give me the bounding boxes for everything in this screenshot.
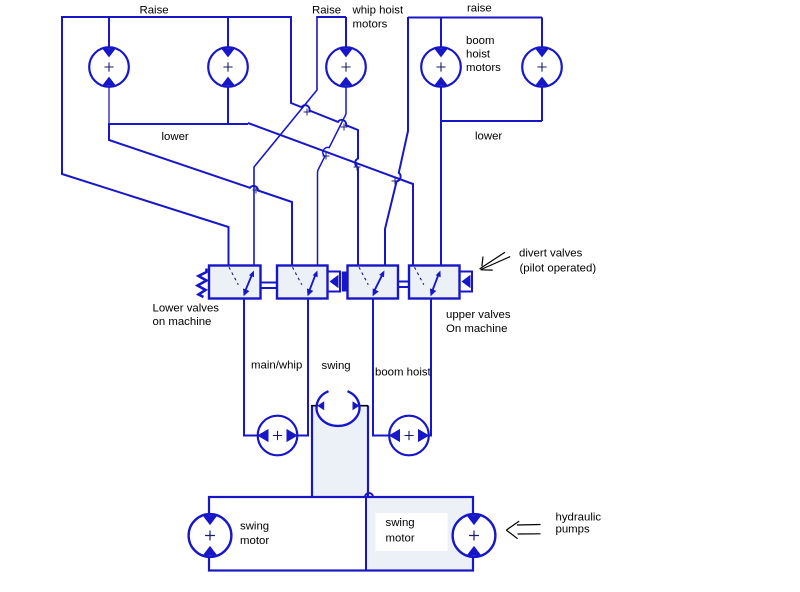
motor M5 boom hoist — [522, 47, 562, 87]
wire left line rail1 to valve V1 left port — [62, 16, 229, 266]
svg-text:boom: boom — [466, 35, 495, 47]
motor M3 whip hoist — [326, 47, 366, 87]
svg-text:hydraulic: hydraulic — [556, 512, 602, 524]
valve V4 body — [409, 266, 460, 299]
wire lower rail 1 — [109, 123, 248, 125]
svg-text:Raise: Raise — [312, 5, 341, 17]
valve V2 body — [277, 266, 328, 299]
motor M10 swing motor right / pump — [453, 514, 496, 557]
crossing tick mark node (307,112) — [304, 109, 311, 116]
svg-text:motor: motor — [386, 533, 415, 545]
pilot box on valve V2 right — [328, 272, 341, 292]
wire raise rail 1 — [62, 16, 291, 18]
valve V1 body — [209, 266, 261, 299]
svg-text:Raise: Raise — [140, 5, 169, 17]
svg-text:raise: raise — [467, 3, 492, 15]
wire swing duct left — [311, 406, 313, 498]
svg-text:Lower valves: Lower valves — [153, 303, 220, 315]
black stub swing motor left — [311, 405, 318, 407]
wire valve V3 bottom to motor M8 left — [373, 299, 390, 436]
svg-text:motors: motors — [353, 19, 388, 31]
svg-text:main/whip: main/whip — [251, 360, 302, 372]
spring on valve V1 left — [198, 269, 207, 298]
solenoid block on valve V3 left — [342, 272, 348, 292]
wire motor M2 bottom drop — [227, 87, 229, 124]
hop arc at duct right over box top node (369,497) — [365, 493, 373, 497]
svg-text:divert valves: divert valves — [519, 248, 583, 260]
pump box right compartment fill — [366, 497, 473, 571]
crossing tick mark node (344,127) — [341, 124, 348, 131]
wire boom lower rail — [441, 120, 542, 122]
wire motor M5 top drop — [541, 18, 543, 49]
svg-text:whip hoist: whip hoist — [352, 5, 404, 17]
valve V3 body — [348, 266, 399, 299]
svg-text:swing: swing — [240, 521, 269, 533]
motor M6 main/whip — [257, 416, 298, 456]
svg-text:lower: lower — [475, 131, 502, 143]
svg-text:boom hoist: boom hoist — [375, 367, 432, 379]
svg-text:swing: swing — [322, 360, 351, 372]
wire motor M2 top drop — [227, 17, 229, 48]
valve V1-V2 connector links — [261, 283, 278, 289]
wire motor M1 top drop — [108, 17, 110, 48]
pump box divider — [365, 497, 367, 571]
motor M7 swing (open-top circle) — [317, 391, 360, 426]
white label plate — [376, 513, 448, 551]
wire motor M5 bottom drop — [541, 87, 543, 121]
crossing tick mark node (326,156) — [323, 153, 330, 160]
wire motor M1 bottom to lower rail — [108, 87, 110, 124]
wire motor M4 top drop — [440, 18, 442, 49]
black arrow divert valves — [480, 252, 511, 270]
wire rail2 left end to valve V1 right port — [254, 16, 317, 266]
wire motor M4 bottom to valve V4 right port — [440, 87, 442, 266]
svg-text:motors: motors — [466, 62, 501, 74]
motor M2 main hoist — [208, 47, 248, 87]
pump box — [209, 497, 473, 571]
wire lower rail right end to valve V4 left port — [248, 123, 413, 266]
wire motor M3 bottom to valve V2 right port — [318, 87, 347, 266]
wire rail3 left end to valve V3 right port — [385, 17, 408, 266]
crossing tick mark node (395,181) — [392, 178, 399, 185]
pilot box on valve V4 right — [460, 272, 473, 292]
valve V3-V4 connector links — [398, 282, 409, 288]
svg-text:upper valves: upper valves — [446, 309, 511, 321]
crossing tick mark node (256,190) — [253, 187, 260, 194]
wire valve V2 bottom to motor M6 right — [298, 299, 309, 436]
motor M8 boom hoist — [389, 416, 430, 456]
wire rail1 right end to valve V3 left port — [291, 16, 358, 266]
black stub swing motor right — [359, 405, 368, 407]
wire valve V4 bottom to motor M8 right — [429, 299, 431, 436]
wire swing duct right — [367, 406, 369, 498]
crossing tick mark node (357,167) — [354, 164, 361, 171]
pump box outline — [209, 497, 473, 571]
svg-text:hoist: hoist — [466, 49, 491, 61]
svg-text:(pilot operated): (pilot operated) — [520, 263, 597, 275]
swing duct fill band — [313, 406, 367, 497]
wire valve V1 bottom to motor M6 left — [244, 299, 258, 436]
motor M9 swing motor left — [189, 514, 232, 557]
svg-text:motor: motor — [240, 535, 269, 547]
svg-text:On machine: On machine — [446, 323, 507, 335]
wire motor M3 top drop — [345, 17, 347, 48]
wire raise rail 2 whip — [317, 16, 346, 18]
wire raise rail 3 boom — [408, 17, 542, 19]
svg-text:pumps: pumps — [556, 524, 590, 536]
svg-text:swing: swing — [386, 517, 415, 529]
svg-text:lower: lower — [162, 131, 189, 143]
svg-text:on machine: on machine — [153, 316, 212, 328]
black arrow hydraulic pumps — [506, 521, 540, 539]
wire lower rail left end to valve V2 left port — [109, 123, 292, 266]
motor M4 boom hoist — [421, 47, 461, 87]
motor M1 main hoist — [89, 47, 129, 87]
